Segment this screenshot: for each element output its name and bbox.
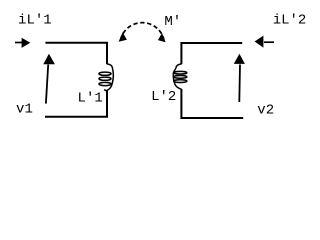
svg-text:v2: v2 <box>257 102 274 118</box>
svg-text:L'1: L'1 <box>78 91 103 107</box>
svg-text:v1: v1 <box>16 102 33 118</box>
svg-text:M': M' <box>164 14 181 30</box>
svg-text:iL'2: iL'2 <box>273 12 307 28</box>
svg-text:iL'1: iL'1 <box>18 12 52 28</box>
svg-text:L'2: L'2 <box>151 89 176 105</box>
